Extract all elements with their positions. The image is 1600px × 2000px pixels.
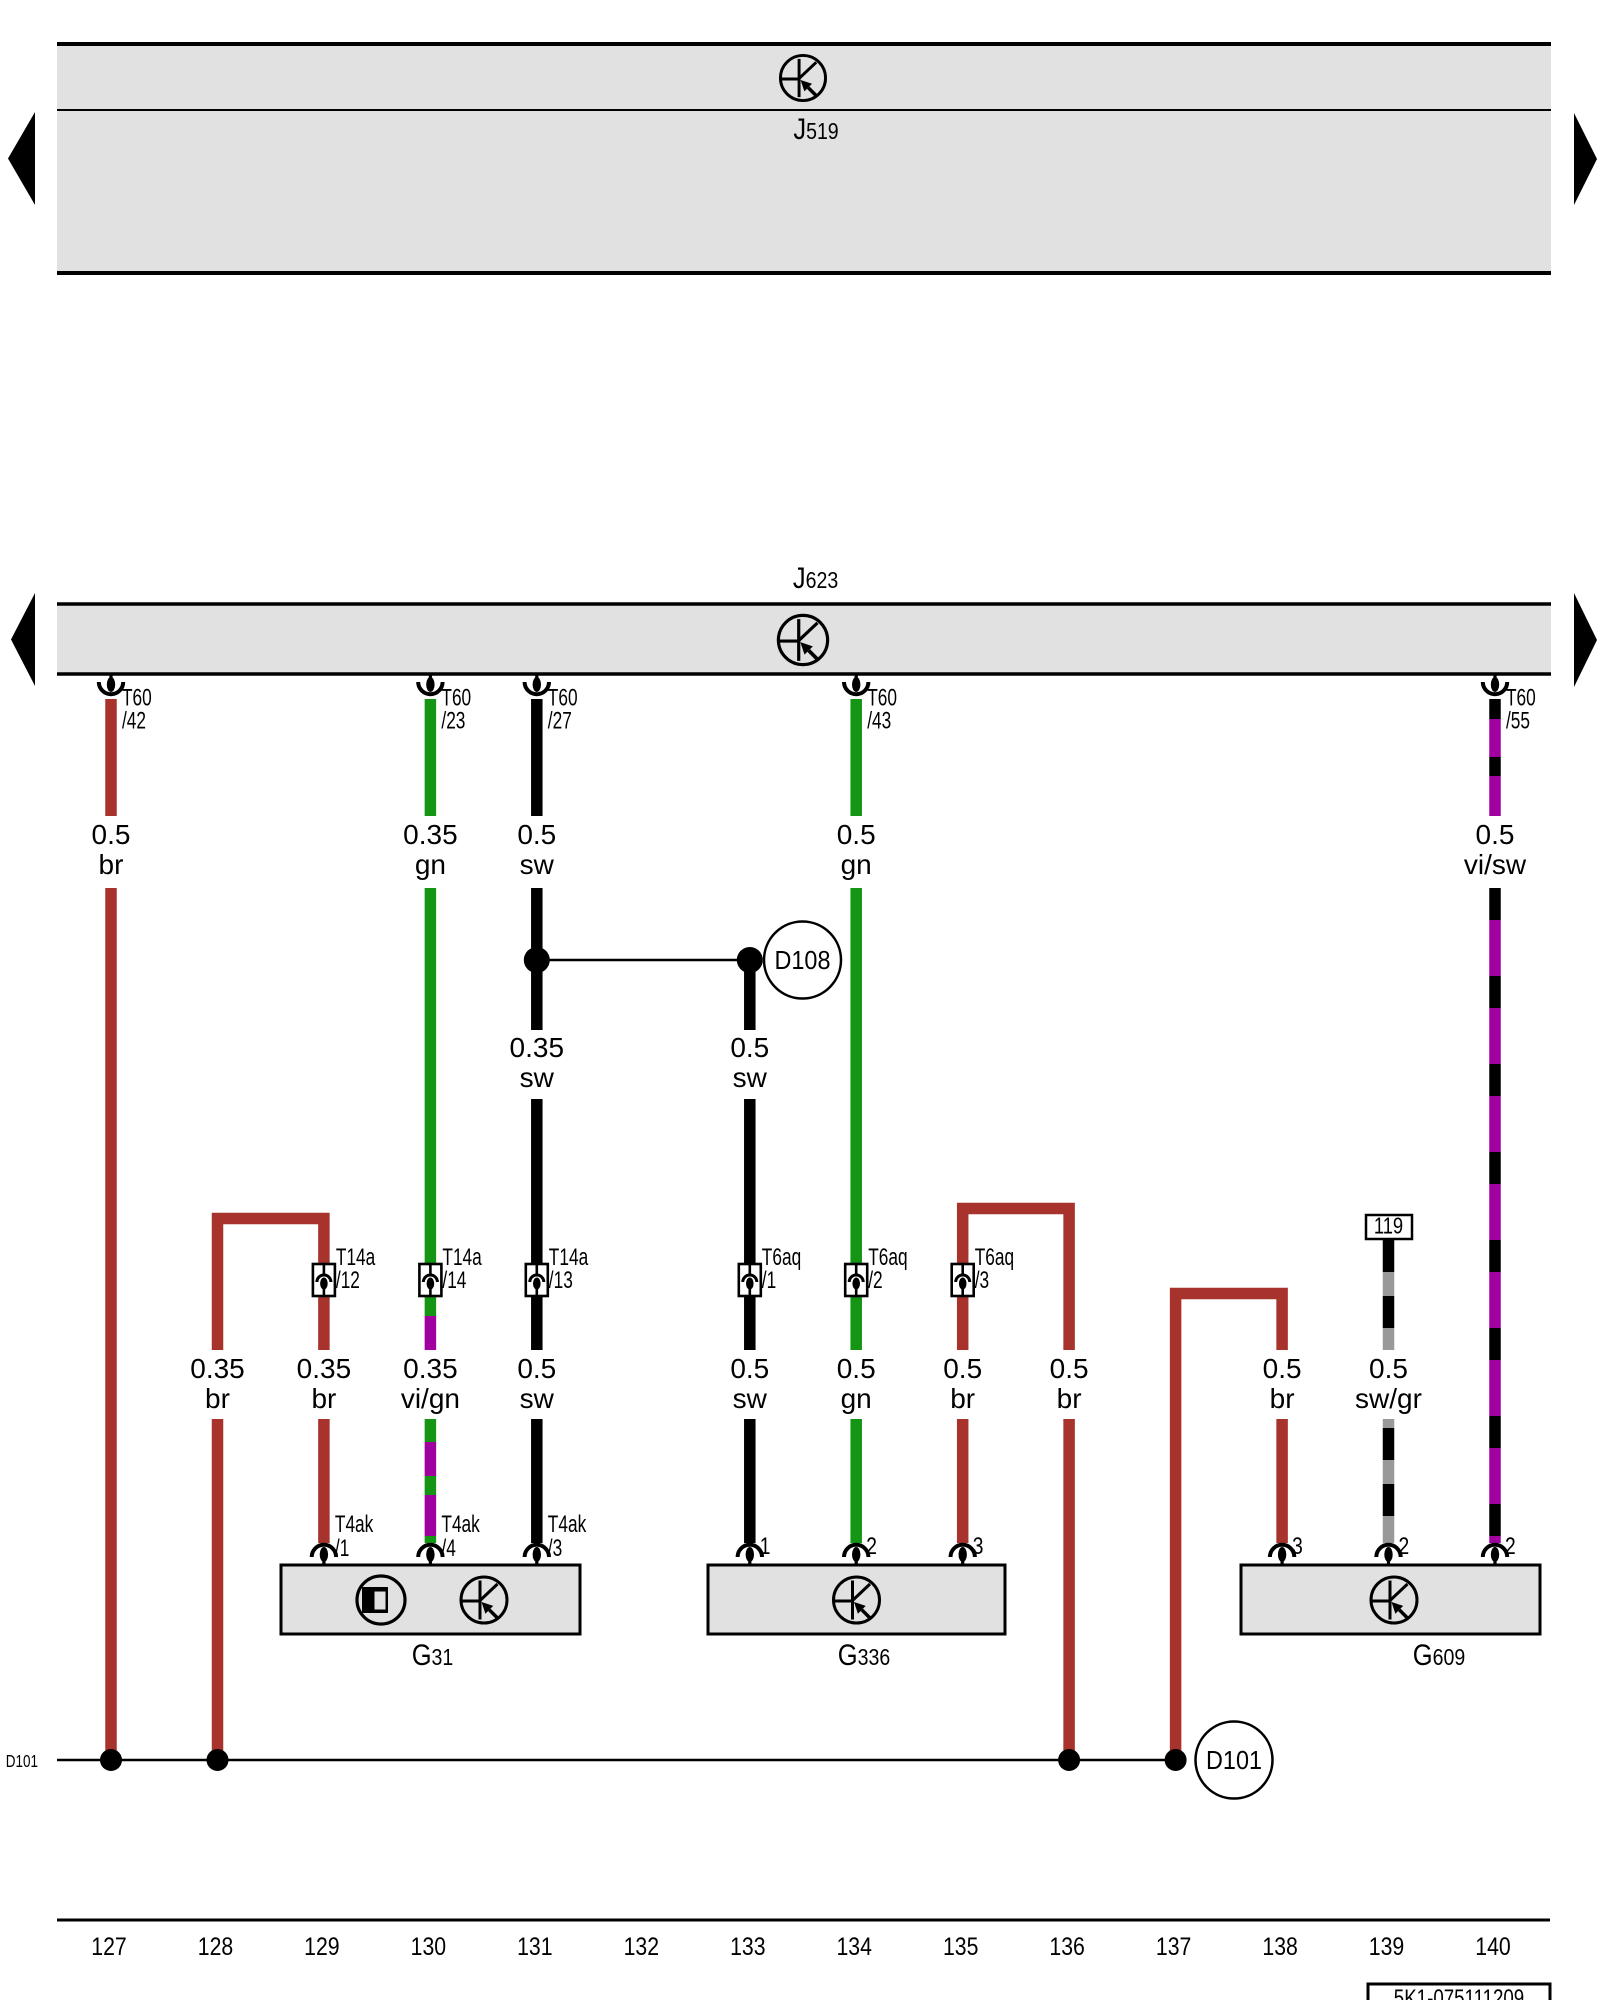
wire 130 vi/gn lower segment to G31 pin 4 bbox=[425, 1419, 437, 1543]
svg-text:sw: sw bbox=[520, 849, 555, 880]
wire 133 sw from node D108 bbox=[744, 954, 756, 1030]
junction on wire 131 bbox=[524, 947, 550, 973]
wire 135 br below connector T6aq/3 bbox=[957, 1296, 969, 1350]
svg-text:T4ak: T4ak bbox=[548, 1511, 587, 1537]
bottom track rule bbox=[57, 1919, 1550, 1922]
svg-text:128: 128 bbox=[198, 1932, 233, 1960]
svg-text:/23: /23 bbox=[441, 708, 465, 734]
continuation arrow left of J519 bbox=[8, 112, 35, 205]
wire 133 sw segment to connector T6aq/1 bbox=[744, 1099, 756, 1264]
terminal pin 2 at G609 bbox=[1376, 1532, 1409, 1566]
terminal T60/55 at J623 bbox=[1483, 673, 1536, 734]
inline connector T14a/13 bbox=[526, 1244, 589, 1296]
svg-text:D101: D101 bbox=[6, 1752, 38, 1771]
svg-text:135: 135 bbox=[943, 1932, 978, 1960]
junction wire 136 on D101 bbox=[1058, 1749, 1080, 1771]
wire 140 vi/sw long segment to G609 pin 2 bbox=[1489, 888, 1501, 1543]
terminal pin 3 at G609 bbox=[1270, 1532, 1303, 1566]
svg-text:2: 2 bbox=[1399, 1532, 1410, 1560]
junction wire 128 on D101 bbox=[207, 1749, 229, 1771]
node circle D101 bbox=[1196, 1722, 1273, 1799]
svg-text:/42: /42 bbox=[122, 708, 146, 734]
terminal T60/42 at J623 bbox=[99, 673, 152, 734]
K-symbol in J519 bbox=[780, 55, 825, 100]
wire 127 br upper segment from T60/42 bbox=[105, 699, 117, 816]
wire 133 sw lower segment to G336 pin 1 bbox=[744, 1419, 756, 1543]
label 0.5 br wire 127 bbox=[92, 819, 131, 880]
svg-text:/55: /55 bbox=[1506, 708, 1530, 734]
svg-text:0.35: 0.35 bbox=[297, 1353, 352, 1384]
terminal pin 2 at G336 bbox=[844, 1532, 877, 1566]
svg-text:br: br bbox=[99, 849, 124, 880]
svg-text:G31: G31 bbox=[412, 1638, 454, 1671]
label 0.5 br wire 136 bbox=[1050, 1353, 1089, 1414]
svg-text:/1: /1 bbox=[762, 1267, 776, 1293]
sender G31 box bbox=[281, 1565, 580, 1634]
K-symbol in G31 bbox=[461, 1577, 507, 1623]
svg-text:J623: J623 bbox=[793, 561, 838, 594]
svg-text:br: br bbox=[1057, 1383, 1082, 1414]
terminal T4ak/1 at G31 bbox=[312, 1511, 374, 1566]
wire 135 br lower segment to G336 pin 3 bbox=[957, 1419, 969, 1543]
wire 139 sw/gr lower segment to G609 pin 2 bbox=[1383, 1419, 1395, 1543]
svg-text:0.5: 0.5 bbox=[1369, 1353, 1408, 1384]
svg-text:T4ak: T4ak bbox=[441, 1511, 480, 1537]
svg-text:br: br bbox=[1270, 1383, 1295, 1414]
svg-text:0.35: 0.35 bbox=[403, 1353, 458, 1384]
wire 130 gn middle segment bbox=[425, 888, 437, 1264]
wire 131 sw upper segment from T60/27 bbox=[531, 699, 543, 816]
svg-text:0.5: 0.5 bbox=[92, 819, 131, 850]
svg-text:/2: /2 bbox=[868, 1267, 882, 1293]
svg-text:/12: /12 bbox=[336, 1267, 360, 1293]
wire 134 gn middle segment to connector T6aq/2 bbox=[850, 888, 862, 1264]
control module J519 box bbox=[57, 44, 1551, 273]
svg-text:0.5: 0.5 bbox=[1263, 1353, 1302, 1384]
wire 130 vi/gn below connector T14a/14 bbox=[425, 1296, 437, 1316]
svg-text:138: 138 bbox=[1262, 1932, 1297, 1960]
label 0.35 br wire 128 bbox=[190, 1353, 245, 1414]
wire 130 gn upper segment from T60/23 bbox=[425, 699, 437, 816]
svg-text:gn: gn bbox=[841, 1383, 872, 1414]
K-symbol in G336 bbox=[834, 1577, 880, 1623]
svg-text:0.5: 0.5 bbox=[730, 1032, 769, 1063]
continuation arrow right of J623 bbox=[1574, 593, 1597, 687]
label 0.5 sw wire 131 lower bbox=[517, 1353, 556, 1414]
wire 129 br lower segment to G31 pin 1 bbox=[318, 1419, 330, 1543]
label 0.35 vi/gn wire 130 bbox=[401, 1353, 460, 1414]
wire 140 vi/sw upper segment from T60/55 bbox=[1489, 699, 1501, 816]
ground connection wire D101 bus bbox=[57, 1759, 1176, 1762]
svg-text:3: 3 bbox=[973, 1532, 984, 1560]
label 0.5 sw wire 131 bbox=[517, 819, 556, 880]
continuation arrow right of J519 bbox=[1574, 113, 1597, 205]
connector plug 119 bbox=[1366, 1214, 1412, 1239]
svg-text:0.35: 0.35 bbox=[510, 1032, 565, 1063]
svg-text:0.35: 0.35 bbox=[403, 819, 458, 850]
junction wire 137 on D101 bbox=[1165, 1749, 1187, 1771]
svg-text:/27: /27 bbox=[548, 708, 572, 734]
svg-text:/1: /1 bbox=[335, 1535, 349, 1561]
svg-text:0.5: 0.5 bbox=[1476, 819, 1515, 850]
svg-text:sw/gr: sw/gr bbox=[1355, 1383, 1422, 1414]
svg-text:/14: /14 bbox=[442, 1267, 466, 1293]
svg-text:119: 119 bbox=[1374, 1214, 1403, 1239]
sender G609 box bbox=[1241, 1565, 1540, 1634]
svg-text:sw: sw bbox=[520, 1062, 555, 1093]
label 0.5 br wire 135 bbox=[943, 1353, 982, 1414]
wire 137-138 br U-bridge bbox=[1176, 1294, 1283, 1761]
wire 127 br lower segment to node D101 bbox=[105, 888, 117, 1760]
svg-text:0.5: 0.5 bbox=[517, 1353, 556, 1384]
label 0.35 gn wire 130 bbox=[403, 819, 458, 880]
terminal T60/23 at J623 bbox=[418, 673, 471, 734]
inline connector T6aq/3 bbox=[952, 1244, 1014, 1296]
wire 128 br lower segment to node D101 bbox=[212, 1419, 224, 1760]
wire 128-129 br U-bridge bbox=[218, 1219, 324, 1351]
svg-text:133: 133 bbox=[730, 1932, 765, 1960]
wire link at node D108 bbox=[537, 959, 750, 962]
wire 131 sw segment to connector T14a/13 bbox=[531, 1099, 543, 1264]
svg-text:sw: sw bbox=[733, 1383, 768, 1414]
wire 134 gn lower segment to G336 pin 2 bbox=[850, 1419, 862, 1543]
svg-text:/3: /3 bbox=[548, 1535, 562, 1561]
inline connector T14a/12 bbox=[313, 1244, 376, 1296]
svg-text:3: 3 bbox=[1292, 1532, 1303, 1560]
svg-text:136: 136 bbox=[1049, 1932, 1084, 1960]
terminal pin 3 at G336 bbox=[951, 1532, 984, 1566]
svg-text:D108: D108 bbox=[775, 947, 831, 975]
svg-text:0.35: 0.35 bbox=[190, 1353, 245, 1384]
svg-text:140: 140 bbox=[1475, 1932, 1510, 1960]
wire 135-136 br U-bridge bbox=[963, 1209, 1069, 1351]
wire 138 br lower segment to G609 pin 3 bbox=[1276, 1419, 1288, 1543]
terminal T60/43 at J623 bbox=[844, 673, 897, 734]
svg-text:0.5: 0.5 bbox=[837, 1353, 876, 1384]
diagram number plate 5K1-075111209 bbox=[1368, 1984, 1550, 2000]
svg-text:129: 129 bbox=[304, 1932, 339, 1960]
wire 133 sw below connector bbox=[744, 1296, 756, 1350]
junction on wire 133 bbox=[737, 947, 763, 973]
svg-text:5K1-075111209: 5K1-075111209 bbox=[1394, 1985, 1524, 2000]
svg-text:0.5: 0.5 bbox=[730, 1353, 769, 1384]
svg-text:gn: gn bbox=[415, 849, 446, 880]
svg-text:1: 1 bbox=[760, 1532, 771, 1560]
svg-text:gn: gn bbox=[841, 849, 872, 880]
inline connector T6aq/1 bbox=[739, 1244, 801, 1296]
terminal T60/27 at J623 bbox=[525, 673, 578, 734]
svg-text:/13: /13 bbox=[549, 1267, 573, 1293]
inline connector T6aq/2 bbox=[845, 1244, 907, 1296]
label 0.5 sw/gr wire 139 bbox=[1355, 1353, 1422, 1414]
wire 131 sw lower segment to G31 pin 3 bbox=[531, 1419, 543, 1543]
wire 139 sw/gr upper segment bbox=[1383, 1239, 1395, 1350]
svg-text:132: 132 bbox=[624, 1932, 659, 1960]
svg-text:T4ak: T4ak bbox=[335, 1511, 374, 1537]
wire 129 br below connector T14a/12 bbox=[318, 1296, 330, 1350]
label 0.5 sw wire 133 bbox=[730, 1032, 769, 1093]
terminal pin 2 at G609 bbox=[1483, 1532, 1516, 1566]
label 0.5 gn wire 134 lower bbox=[837, 1353, 876, 1414]
label 0.5 sw wire 133 lower bbox=[730, 1353, 769, 1414]
svg-text:br: br bbox=[311, 1383, 336, 1414]
node circle D108 bbox=[764, 922, 841, 999]
terminal T4ak/3 at G31 bbox=[525, 1511, 587, 1566]
track numbers 127-140 bbox=[91, 1932, 1510, 1960]
continuation arrow left of J623 bbox=[11, 593, 35, 686]
terminal pin 1 at G336 bbox=[738, 1532, 771, 1566]
wire 136 br lower segment to node D101 bbox=[1063, 1419, 1075, 1760]
svg-text:0.5: 0.5 bbox=[1050, 1353, 1089, 1384]
inline connector T14a/14 bbox=[419, 1244, 482, 1296]
svg-text:0.5: 0.5 bbox=[837, 819, 876, 850]
svg-text:/3: /3 bbox=[975, 1267, 989, 1293]
svg-text:D101: D101 bbox=[1206, 1747, 1262, 1775]
wire 131 sw below connector bbox=[531, 1296, 543, 1350]
svg-text:130: 130 bbox=[411, 1932, 446, 1960]
K-symbol in G609 bbox=[1371, 1577, 1417, 1623]
wire 134 gn below connector bbox=[850, 1296, 862, 1350]
svg-text:131: 131 bbox=[517, 1932, 552, 1960]
svg-text:/4: /4 bbox=[441, 1535, 456, 1561]
svg-text:139: 139 bbox=[1369, 1932, 1404, 1960]
svg-text:sw: sw bbox=[520, 1383, 555, 1414]
label 0.5 br wire 138 bbox=[1263, 1353, 1302, 1414]
svg-text:vi/gn: vi/gn bbox=[401, 1383, 460, 1414]
wire 134 gn upper segment from T60/43 bbox=[850, 699, 862, 816]
svg-text:br: br bbox=[205, 1383, 230, 1414]
engine control module J623 box bbox=[57, 604, 1551, 674]
svg-text:G336: G336 bbox=[838, 1638, 890, 1671]
svg-text:127: 127 bbox=[91, 1932, 126, 1960]
label 0.35 br wire 129 bbox=[297, 1353, 352, 1414]
svg-text:sw: sw bbox=[733, 1062, 768, 1093]
label 0.35 sw wire 131 bbox=[510, 1032, 565, 1093]
K-symbol in J623 bbox=[778, 615, 827, 664]
svg-text:137: 137 bbox=[1156, 1932, 1191, 1960]
svg-text:0.5: 0.5 bbox=[517, 819, 556, 850]
svg-text:br: br bbox=[950, 1383, 975, 1414]
label 0.5 gn wire 134 bbox=[837, 819, 876, 880]
svg-text:/43: /43 bbox=[867, 708, 891, 734]
junction wire 127 on D101 bbox=[100, 1749, 122, 1771]
svg-text:vi/sw: vi/sw bbox=[1464, 849, 1527, 880]
svg-text:G609: G609 bbox=[1413, 1638, 1465, 1671]
svg-text:2: 2 bbox=[866, 1532, 877, 1560]
label 0.5 vi/sw wire 140 bbox=[1464, 819, 1527, 880]
wire 131 sw segment through junction bbox=[531, 888, 543, 1030]
svg-text:0.5: 0.5 bbox=[943, 1353, 982, 1384]
terminal T4ak/4 at G31 bbox=[418, 1511, 480, 1566]
svg-text:134: 134 bbox=[836, 1932, 872, 1960]
fuel gauge symbol in G31 bbox=[357, 1576, 405, 1624]
svg-text:2: 2 bbox=[1505, 1532, 1516, 1560]
sender G336 box bbox=[708, 1565, 1005, 1634]
